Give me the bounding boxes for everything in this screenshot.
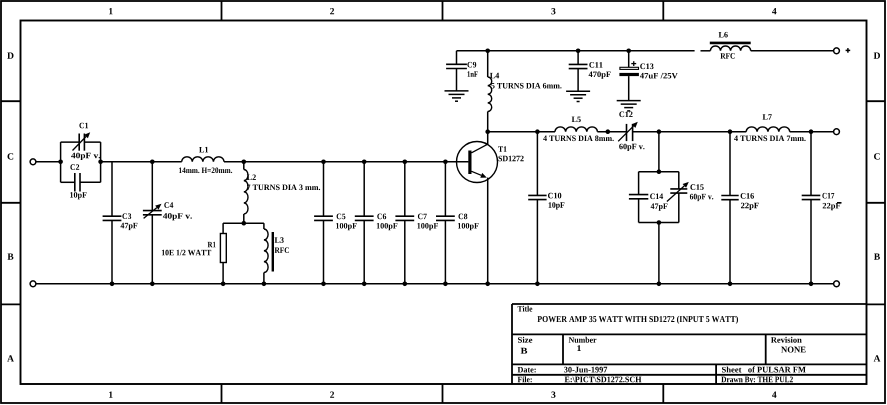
capacitor C1 40pF variable <box>61 123 101 160</box>
wire: parallel loop left leg <box>60 142 62 182</box>
node: tank bottom at rail <box>657 282 662 287</box>
inductor L1 14mm H=20mm <box>179 147 232 173</box>
capacitor C14 47pF <box>629 172 668 223</box>
node: tank box bottom <box>657 220 662 225</box>
port: ground right <box>834 281 840 287</box>
capacitor C12 60pF variable (series) <box>618 112 644 152</box>
port: RF input <box>30 159 36 165</box>
node: C1/C2 left junction <box>58 160 63 165</box>
capacitor C9 1nF <box>446 51 478 91</box>
wire: ground rail <box>36 283 833 285</box>
node: C10 bottom <box>535 282 540 287</box>
node: L5/C12 junction <box>606 129 611 134</box>
node: C7 top <box>403 160 408 165</box>
capacitor C17 22pF <box>802 132 841 284</box>
node: C16 bottom <box>728 282 733 287</box>
transistor T1 SD1272 <box>457 142 524 183</box>
capacitor C13 47uF/25V electrolytic <box>619 51 677 101</box>
inductor L4 5 turns dia 6mm <box>488 51 562 132</box>
capacitor C15 60pF variable <box>667 172 713 223</box>
node: C6 bottom <box>362 282 367 287</box>
inductor L7 4 turns dia 7mm <box>734 114 806 141</box>
port: ground left <box>30 281 36 287</box>
node: L3 bottom <box>262 282 267 287</box>
node: C5 bottom <box>321 282 326 287</box>
node: C13 top <box>626 49 631 54</box>
node: bias junction <box>242 221 247 226</box>
wire: down to tank <box>658 132 660 172</box>
node: emitter at ground rail <box>485 282 490 287</box>
wire: parallel loop right leg <box>100 142 102 182</box>
node: L2 top <box>242 160 247 165</box>
wire: top supply rail <box>457 50 834 52</box>
node: C4 top <box>150 160 155 165</box>
port: V+ output <box>834 48 851 54</box>
node: C3 bottom <box>110 282 115 287</box>
node: C7 bottom <box>403 282 408 287</box>
node: tank top junction <box>657 129 662 134</box>
capacitor C8 100pF <box>436 162 479 284</box>
inductor L6 RFC (supply choke) <box>710 32 751 59</box>
node: C17 bottom <box>809 282 814 287</box>
node: collector junction <box>485 129 490 134</box>
capacitor C16 22pF <box>721 132 758 284</box>
node: C17 top <box>809 129 814 134</box>
node: C16 top <box>728 129 733 134</box>
node: C11 top <box>576 49 581 54</box>
ground below C13 <box>617 101 641 111</box>
capacitor C2 10pF <box>61 164 101 199</box>
capacitor C11 470pF <box>569 51 611 91</box>
ground below C11 <box>566 91 590 101</box>
port: RF output <box>834 129 840 135</box>
wire: bias tee horizontal <box>223 222 264 224</box>
wire: tank to ground rail <box>658 223 660 284</box>
resistor R1 10E 1/2 WATT <box>162 223 226 284</box>
node: tank box top <box>657 169 662 174</box>
node: C1/C2 right junction <box>98 160 103 165</box>
capacitor C5 100pF <box>314 162 357 284</box>
capacitor C4 40pF variable <box>143 162 192 284</box>
inductor L2 7 turns dia 3mm <box>244 162 320 223</box>
wire: rail L1 to transistor base <box>224 161 468 163</box>
ground below C9 <box>445 91 469 101</box>
capacitor C7 100pF <box>395 162 438 284</box>
wire: collector up <box>487 132 489 145</box>
wire: input to C1/C2 <box>36 161 60 163</box>
inductor L3 RFC <box>264 223 289 284</box>
capacitor C10 10pF <box>528 132 564 284</box>
node: C10 top <box>535 129 540 134</box>
wire: tank box bottom side <box>639 222 679 224</box>
node: R1 bottom <box>221 282 226 287</box>
node: C6 top <box>362 160 367 165</box>
node: C5 top <box>321 160 326 165</box>
wire: rail C1/C2 to L1 <box>101 161 182 163</box>
node: L4 top <box>485 49 490 54</box>
capacitor C6 100pF <box>355 162 398 284</box>
node: C8 top <box>443 160 448 165</box>
inductor L5 4 turns dia 8mm <box>543 117 614 142</box>
wire: collector rail segments <box>488 131 834 133</box>
wire: emitter down <box>487 178 489 284</box>
node: C8 bottom <box>443 282 448 287</box>
node: C4 bottom <box>150 282 155 287</box>
capacitor C3 47pF <box>103 162 138 284</box>
wire: tank box top side <box>639 171 679 173</box>
